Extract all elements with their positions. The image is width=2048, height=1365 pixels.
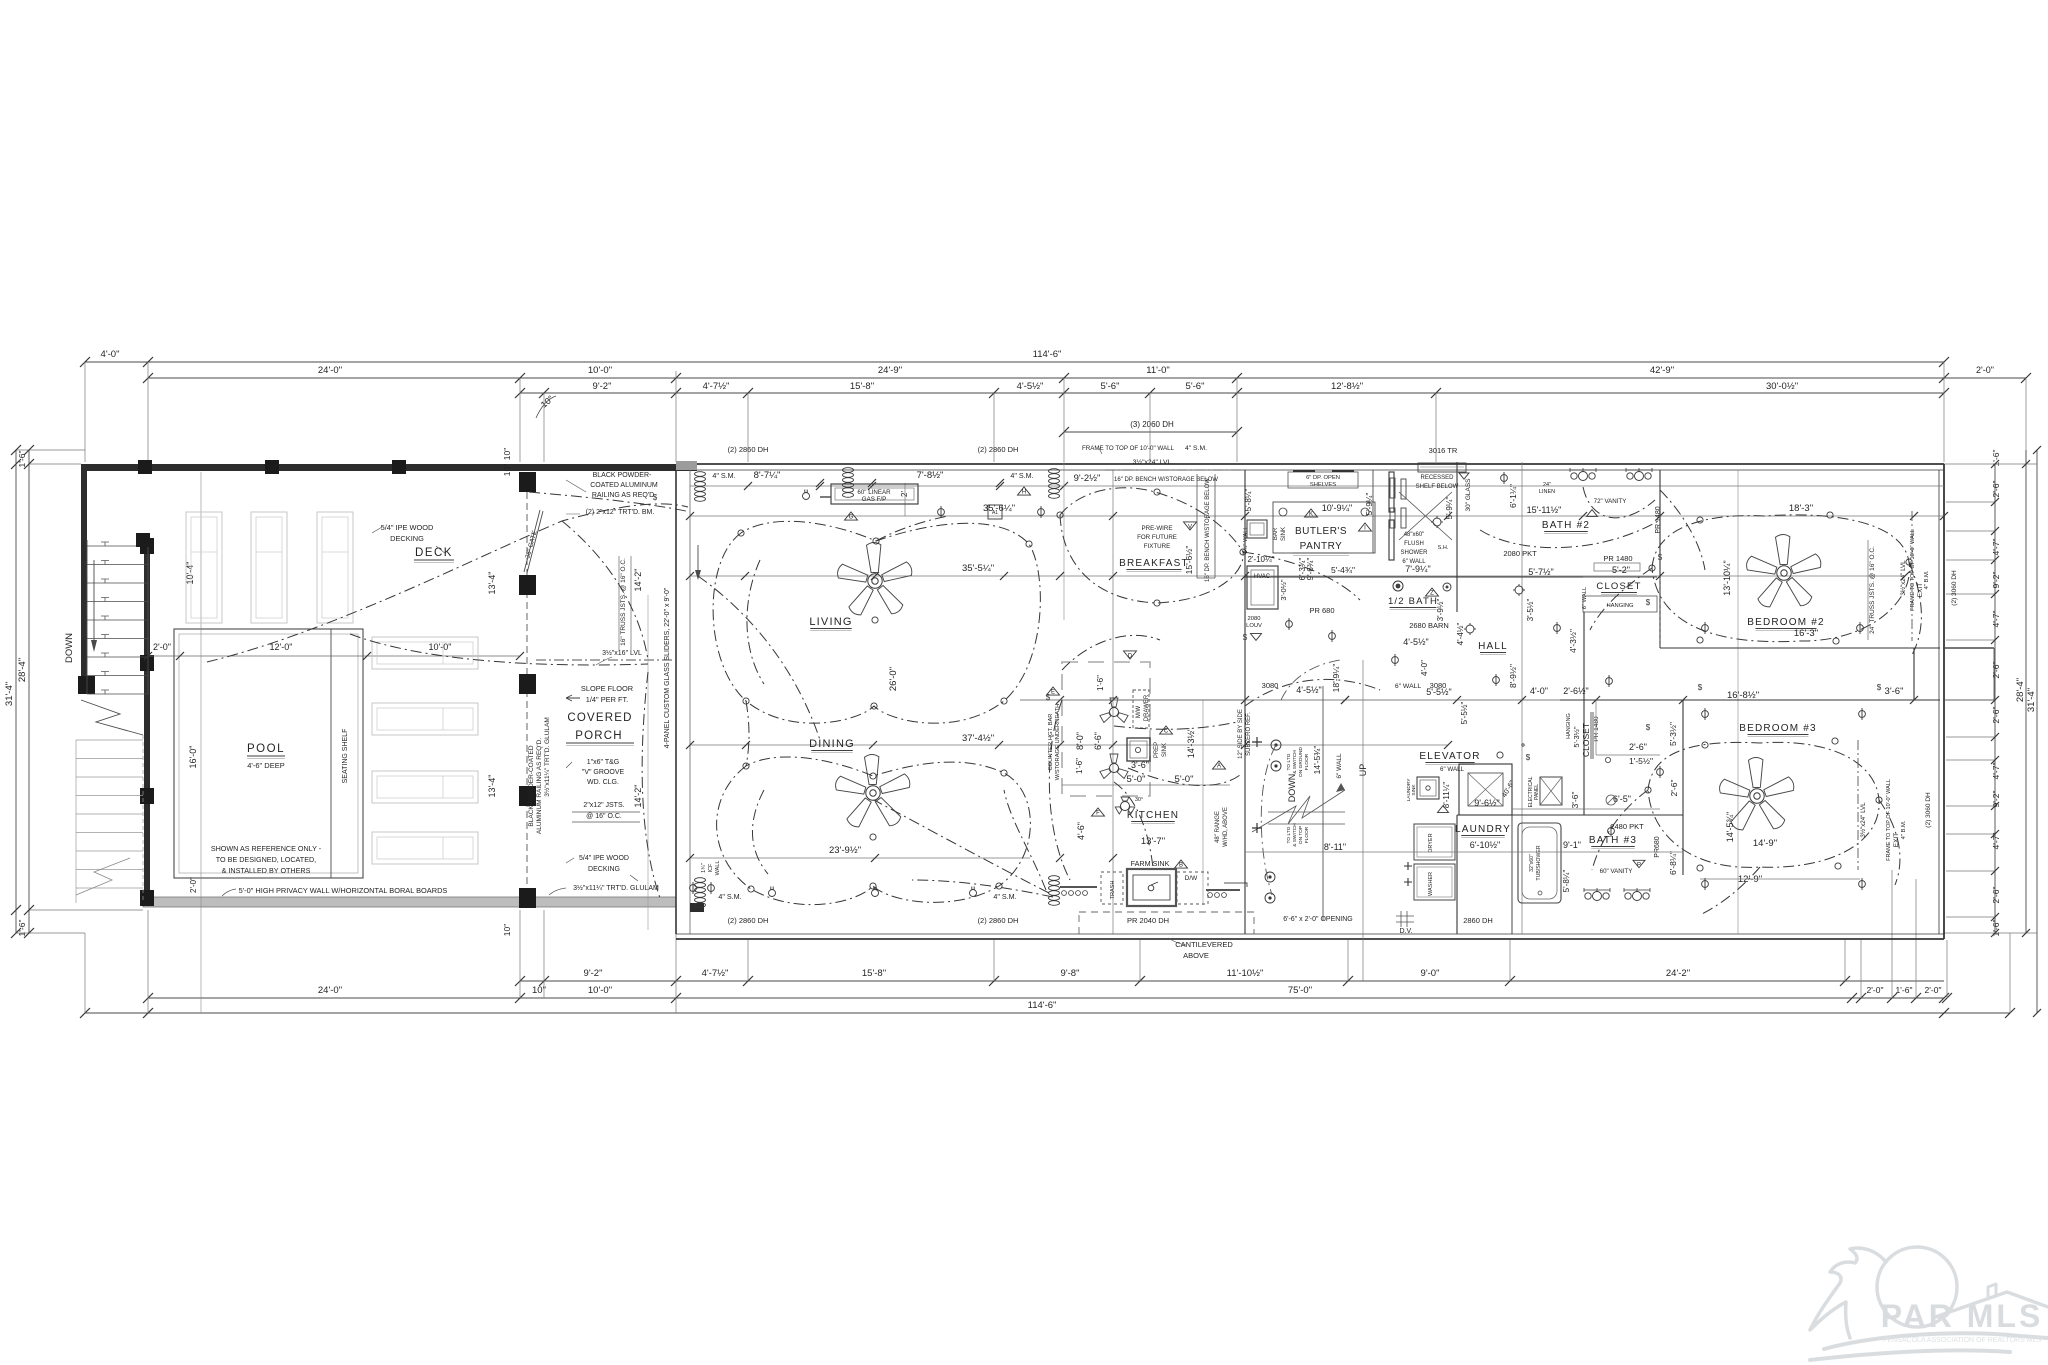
wall bed2 south [1660, 647, 1940, 649]
svg-text:48" RANGE: 48" RANGE [1215, 811, 1221, 843]
svg-text:PR680: PR680 [1654, 836, 1661, 858]
faucet bars [1060, 886, 1097, 888]
GFI bottom [769, 890, 776, 897]
svg-text:DRAWER: DRAWER [1144, 694, 1150, 721]
svg-text:9'-2½": 9'-2½" [1074, 473, 1101, 484]
svg-text:4'-4½": 4'-4½" [1456, 623, 1465, 646]
svg-text:30°: 30° [1135, 797, 1143, 803]
svg-text:6" WALL: 6" WALL [1395, 683, 1422, 690]
svg-text:5/4" IPE WOOD: 5/4" IPE WOOD [381, 523, 434, 532]
svg-text:WALL: WALL [715, 861, 721, 876]
svg-text:24'-2": 24'-2" [1666, 968, 1690, 979]
svg-text:DRYER: DRYER [1428, 833, 1434, 852]
right bump-out nook [1913, 648, 1915, 700]
svg-text:6" WALL: 6" WALL [1402, 559, 1426, 565]
laundry sink [1417, 777, 1439, 799]
svg-text:POOL: POOL [247, 743, 285, 755]
svg-text:5'-2": 5'-2" [1612, 565, 1630, 575]
svg-text:1/4" PER FT.: 1/4" PER FT. [586, 695, 628, 704]
svg-text:PAR MLS: PAR MLS [1881, 1298, 2044, 1334]
wiring arcs living/dining [207, 492, 1053, 905]
svg-text:$: $ [1658, 553, 1663, 562]
svg-text:11'-0": 11'-0" [1146, 365, 1170, 376]
svg-text:9'-2": 9'-2" [593, 381, 612, 392]
svg-text:COUNTER HGT. BAR: COUNTER HGT. BAR [1048, 713, 1054, 770]
svg-text:BAR: BAR [1273, 527, 1279, 540]
svg-text:8'-0": 8'-0" [1075, 732, 1085, 750]
svg-text:15'-11½": 15'-11½" [1527, 505, 1562, 515]
svg-text:RAILING AS REQ'D.: RAILING AS REQ'D. [592, 492, 656, 499]
svg-text:3½"x24" LVL: 3½"x24" LVL [1133, 458, 1172, 466]
fireplace [831, 484, 918, 504]
svg-text:4-PANEL CUSTOM GLASS SLIDERS,: 4-PANEL CUSTOM GLASS SLIDERS, 22'-0" x 9… [664, 587, 671, 748]
svg-text:1'-6": 1'-6" [1075, 758, 1084, 774]
svg-text:$: $ [1877, 683, 1882, 692]
svg-text:2'-6": 2'-6" [1669, 780, 1679, 797]
svg-text:SHELVES: SHELVES [1310, 482, 1336, 488]
svg-text:6'-6": 6'-6" [1093, 732, 1103, 750]
svg-text:"V" GROOVE: "V" GROOVE [582, 769, 625, 776]
svg-text:3'-6": 3'-6" [1131, 760, 1149, 770]
bedroom3 fan [1720, 758, 1794, 830]
svg-text:& INSTALLED BY OTHERS: & INSTALLED BY OTHERS [222, 866, 311, 875]
svg-text:4'-6": 4'-6" [1076, 822, 1086, 840]
svg-text:4'-0": 4'-0" [1530, 686, 1548, 696]
svg-text:37'-4½": 37'-4½" [962, 733, 994, 744]
svg-text:GAS F/P: GAS F/P [862, 496, 886, 503]
arrow on sliders [697, 545, 699, 572]
svg-text:28'-4": 28'-4" [17, 658, 28, 682]
svg-text:14'-5¾": 14'-5¾" [1312, 746, 1322, 775]
svg-text:3'-6": 3'-6" [1885, 686, 1904, 697]
svg-text:6" WALL: 6" WALL [1336, 753, 1343, 779]
svg-text:16" DP. BENCH W/STORAGE BELOW: 16" DP. BENCH W/STORAGE BELOW [1205, 478, 1211, 582]
svg-text:PORCH: PORCH [575, 730, 623, 742]
svg-text:1"x6" T&G: 1"x6" T&G [587, 759, 619, 766]
svg-text:4'-7": 4'-7" [1991, 611, 2001, 628]
pantry counter [1273, 502, 1375, 553]
svg-text:& SWITCH: & SWITCH [1292, 823, 1298, 847]
pantry shelves wall [1372, 470, 1374, 553]
svg-text:W/HD, ABOVE: W/HD, ABOVE [1223, 807, 1229, 847]
dotted bed2/closet wall [1659, 578, 1661, 648]
svg-text:12" SIDE BY SIDE: 12" SIDE BY SIDE [1238, 709, 1244, 759]
svg-text:31'-4": 31'-4" [2026, 688, 2037, 712]
svg-text:RECESSED: RECESSED [1420, 475, 1454, 481]
svg-text:10": 10" [502, 924, 512, 936]
kitchen island dashed gray [1062, 662, 1150, 796]
svg-text:PR 1480: PR 1480 [1655, 506, 1662, 533]
breakfast arcs [1060, 488, 1360, 603]
svg-text:1¾": 1¾" [701, 863, 707, 873]
svg-text:BEDROOM #3: BEDROOM #3 [1739, 723, 1817, 734]
svg-text:35'-5¼": 35'-5¼" [962, 563, 994, 574]
bed2 arcs [1590, 515, 1921, 655]
svg-text:SINK: SINK [1162, 743, 1168, 757]
svg-text:TO LTG: TO LTG [1286, 826, 1292, 843]
svg-text:3½"x24" LVL: 3½"x24" LVL [1860, 802, 1867, 838]
svg-text:HALL: HALL [1478, 641, 1508, 652]
svg-text:3½"x16" LVL: 3½"x16" LVL [602, 649, 642, 657]
svg-text:EXIT: EXIT [1917, 583, 1924, 597]
svg-text:5'-5½": 5'-5½" [1460, 702, 1469, 725]
pool dim line [148, 655, 520, 657]
bottom extension lines [84, 933, 86, 1013]
svg-text:32"x60": 32"x60" [1529, 854, 1535, 872]
living fan [838, 543, 912, 615]
svg-text:23'-9½": 23'-9½" [829, 845, 861, 856]
svg-text:5'-7½": 5'-7½" [1528, 567, 1553, 577]
svg-text:10'-0": 10'-0" [588, 365, 612, 376]
svg-text:4" B.M.: 4" B.M. [1901, 820, 1907, 839]
svg-text:ON TOP: ON TOP [1298, 826, 1304, 844]
svg-text:V: V [1188, 525, 1192, 531]
svg-text:DOWN: DOWN [1287, 774, 1297, 803]
svg-text:16'-0": 16'-0" [188, 746, 198, 769]
phi fixtures right rooms [1702, 625, 1709, 632]
privacy wall gray [143, 897, 676, 907]
svg-text:COVERED: COVERED [567, 712, 632, 724]
svg-text:30" GLASS: 30" GLASS [1465, 478, 1472, 512]
svg-text:2'-0": 2'-0" [1867, 985, 1884, 995]
svg-text:3'-6": 3'-6" [1570, 792, 1580, 809]
svg-text:13'-4": 13'-4" [487, 572, 497, 595]
svg-text:CLOSET: CLOSET [1581, 723, 1591, 757]
triangles kitchen [1047, 687, 1060, 695]
svg-text:PR 2040 DH: PR 2040 DH [1127, 916, 1169, 925]
deck lounge chairs vertical [186, 512, 222, 623]
svg-text:30'-0½": 30'-0½" [1766, 381, 1798, 392]
svg-text:LINEN: LINEN [1539, 489, 1555, 495]
svg-text:1'-6": 1'-6" [1896, 985, 1913, 995]
svg-text:2'-6": 2'-6" [1991, 887, 2001, 904]
switch clusters stairs [1271, 740, 1281, 750]
svg-text:2680 BARN: 2680 BARN [1409, 621, 1449, 630]
top extension lines [84, 362, 86, 462]
LVL line [536, 659, 676, 661]
cantilever dashed [1079, 912, 1254, 934]
bottom dimension tier 1 [520, 980, 1944, 982]
stair walls [1244, 700, 1246, 934]
svg-text:COATED ALUMINUM: COATED ALUMINUM [590, 482, 658, 489]
svg-text:6'-6" x 2'-0" OPENING: 6'-6" x 2'-0" OPENING [1283, 916, 1353, 923]
svg-text:3080: 3080 [1262, 681, 1279, 690]
svg-text:D.V.: D.V. [1400, 928, 1413, 935]
svg-text:BLACK POWDER-: BLACK POWDER- [593, 472, 652, 479]
down arrow [93, 560, 95, 642]
svg-text:5'-4¾": 5'-4¾" [1331, 565, 1355, 575]
svg-text:16" TRUSS JSTS. @ 16" O.C.: 16" TRUSS JSTS. @ 16" O.C. [620, 558, 627, 646]
svg-text:SHELF BELOW: SHELF BELOW [1416, 484, 1459, 490]
svg-text:3'-9½": 3'-9½" [1436, 599, 1445, 622]
svg-text:14'-2": 14'-2" [633, 785, 643, 808]
svg-text:12'-0": 12'-0" [270, 642, 293, 652]
svg-text:4'-7½": 4'-7½" [702, 968, 729, 979]
svg-text:2'-6": 2'-6" [1629, 742, 1647, 752]
top dimension tier 3 [520, 392, 1944, 394]
interior reference lines [690, 485, 1944, 487]
svg-text:3080: 3080 [1430, 681, 1447, 690]
svg-text:24'-0": 24'-0" [318, 365, 342, 376]
svg-text:2'-0": 2'-0" [1925, 985, 1942, 995]
trash / dw [1101, 872, 1123, 904]
svg-text:4" S.M.: 4" S.M. [1010, 471, 1033, 480]
svg-text:DECKING: DECKING [588, 866, 620, 873]
house right wall [1943, 464, 1945, 939]
bedroom2 fan [1747, 535, 1821, 607]
svg-text:75'-0": 75'-0" [1288, 985, 1312, 996]
svg-text:15'-8": 15'-8" [862, 968, 886, 979]
svg-text:$: $ [1046, 693, 1051, 702]
deck top wall thick [81, 464, 697, 471]
svg-text:10'-0": 10'-0" [429, 642, 452, 652]
top wall posts [138, 460, 152, 474]
svg-text:6'-1¼": 6'-1¼" [1508, 484, 1518, 508]
svg-text:BATH #3: BATH #3 [1589, 835, 1637, 846]
left dimensions [15, 450, 17, 933]
svg-text:9'-1": 9'-1" [1563, 840, 1581, 850]
svg-text:5'-6": 5'-6" [1101, 381, 1120, 392]
svg-text:1'-6": 1'-6" [1991, 920, 2001, 937]
svg-text:14'-5¾": 14'-5¾" [1725, 812, 1735, 842]
svg-text:SLOPE FLOOR: SLOPE FLOOR [581, 684, 633, 693]
svg-text:1'-5½": 1'-5½" [1629, 756, 1653, 766]
svg-text:4'-6" DEEP: 4'-6" DEEP [247, 761, 284, 770]
svg-text:9'-8": 9'-8" [1061, 968, 1080, 979]
house bottom wall [676, 933, 1944, 935]
svg-text:PR 680: PR 680 [1309, 606, 1334, 615]
svg-text:PR 1480: PR 1480 [1603, 554, 1632, 563]
svg-text:6'-10½": 6'-10½" [1470, 840, 1500, 850]
svg-text:BUTLER'S: BUTLER'S [1295, 526, 1347, 537]
svg-text:2080: 2080 [1248, 616, 1261, 622]
svg-text:3½"x24" LVL: 3½"x24" LVL [1900, 560, 1907, 596]
svg-text:15'-8": 15'-8" [850, 381, 874, 392]
svg-text:$: $ [1698, 683, 1703, 692]
svg-text:BLACK POWDER-COATED: BLACK POWDER-COATED [528, 745, 535, 826]
svg-text:12'-9": 12'-9" [1738, 874, 1762, 885]
svg-text:PANTRY: PANTRY [1300, 541, 1343, 552]
svg-text:CLOSET: CLOSET [1596, 581, 1641, 592]
fixtures right of fireplace [938, 509, 945, 516]
svg-text:10": 10" [502, 464, 512, 476]
svg-text:3'-0½": 3'-0½" [1279, 579, 1288, 601]
stair break arrow [1268, 811, 1345, 813]
svg-text:(2) 2860 DH: (2) 2860 DH [978, 445, 1019, 454]
svg-text:FARM SINK: FARM SINK [1131, 859, 1170, 868]
svg-text:5/4" IPE WOOD: 5/4" IPE WOOD [579, 855, 629, 862]
top dimension tier 1 (114-6) [148, 361, 1944, 363]
svg-text:6'-8¼": 6'-8¼" [1668, 851, 1678, 875]
svg-text:W/STORAGE UNDERNEATH: W/STORAGE UNDERNEATH [1055, 704, 1061, 781]
svg-text:(2) 2"x12" TRT'D. BM.: (2) 2"x12" TRT'D. BM. [586, 509, 655, 516]
bed3 arcs [1592, 742, 1900, 915]
svg-text:8'-9½": 8'-9½" [1508, 664, 1518, 688]
svg-text:SEATING SHELF: SEATING SHELF [342, 729, 349, 784]
svg-text:2': 2' [900, 491, 909, 497]
kitchen arcs [1049, 635, 1380, 880]
svg-text:WASHER: WASHER [1428, 872, 1434, 896]
svg-text:4'-0": 4'-0" [101, 349, 120, 360]
svg-text:31'-4": 31'-4" [4, 682, 15, 706]
laundry/bath3 walls [1456, 815, 1458, 934]
svg-text:BREAKFAST: BREAKFAST [1119, 558, 1189, 569]
svg-text:7'-9¼": 7'-9¼" [1405, 564, 1430, 574]
svg-text:18'-3": 18'-3" [1789, 503, 1813, 514]
svg-text:5'-0" HIGH PRIVACY WALL W/HORI: 5'-0" HIGH PRIVACY WALL W/HORIZONTAL BOR… [239, 886, 448, 895]
svg-text:4" S.M.: 4" S.M. [993, 892, 1016, 901]
svg-text:4" S.M.: 4" S.M. [1185, 445, 1207, 452]
svg-text:F: F [1096, 811, 1100, 817]
seating shelf [330, 629, 332, 878]
svg-text:1'-6": 1'-6" [1096, 675, 1105, 691]
svg-text:5'-9¼": 5'-9¼" [1445, 497, 1454, 520]
svg-text:5'-0": 5'-0" [1127, 774, 1146, 785]
svg-text:ABOVE: ABOVE [1183, 951, 1209, 960]
svg-text:PREP: PREP [1154, 742, 1160, 758]
svg-text:H: H [1022, 490, 1026, 496]
svg-text:PR 1480: PR 1480 [1593, 716, 1600, 742]
svg-text:2480 PKT: 2480 PKT [1610, 822, 1644, 831]
svg-text:4" S.M.: 4" S.M. [718, 892, 741, 901]
svg-text:WD. CLG.: WD. CLG. [587, 779, 619, 786]
svg-text:4'-7": 4'-7" [1991, 833, 2001, 850]
svg-text:13'-7": 13'-7" [1141, 836, 1165, 847]
svg-text:4'-7": 4'-7" [1991, 763, 2001, 780]
svg-text:2'-0": 2'-0" [153, 642, 171, 652]
PAR MLS watermark [1810, 1247, 2048, 1360]
shower [1389, 472, 1394, 512]
svg-text:B: B [1179, 863, 1183, 869]
svg-text:18'-9¼": 18'-9¼" [1331, 664, 1341, 693]
svg-text:14'-9": 14'-9" [1753, 838, 1777, 849]
svg-text:1/2 BATH: 1/2 BATH [1388, 596, 1438, 607]
bottom dimension tier 2 [148, 997, 1944, 999]
svg-text:(2) 3060 DH: (2) 3060 DH [1951, 570, 1958, 606]
svg-text:HANGING: HANGING [1606, 603, 1634, 609]
svg-text:14'-3½": 14'-3½" [1186, 728, 1196, 758]
svg-text:P: P [1637, 863, 1641, 869]
svg-text:114'-6": 114'-6" [1033, 349, 1062, 360]
svg-text:PENSACOLA ASSOCIATION OF REALT: PENSACOLA ASSOCIATION OF REALTORS MLS [1883, 1337, 2042, 1344]
svg-text:42'-9": 42'-9" [1650, 365, 1674, 376]
svg-text:KITCHEN: KITCHEN [1127, 810, 1179, 821]
wall butlers/bath2 [1244, 470, 1246, 700]
right dimensions [2036, 450, 2038, 1013]
svg-text:4'-7": 4'-7" [1991, 539, 2001, 556]
svg-text:(2) 3060 DH: (2) 3060 DH [1925, 792, 1932, 828]
svg-text:7'-8½": 7'-8½" [917, 470, 944, 481]
left deck wall [81, 464, 87, 694]
svg-text:4" B.M.: 4" B.M. [1924, 570, 1930, 589]
svg-text:LAUNDRY: LAUNDRY [1455, 824, 1511, 835]
slider wall [675, 470, 677, 934]
svg-text:13'-10¼": 13'-10¼" [1722, 560, 1732, 595]
stairwell rails [86, 540, 88, 694]
farm sink [1127, 869, 1176, 906]
wall bed3 north [1560, 699, 1940, 701]
svg-text:(3) 2060 DH: (3) 2060 DH [1130, 420, 1174, 429]
svg-text:10": 10" [502, 448, 512, 460]
svg-text:24'-0": 24'-0" [318, 985, 342, 996]
svg-text:$: $ [1646, 598, 1651, 607]
bath3 tub [1518, 823, 1561, 903]
svg-text:G: G [849, 515, 854, 521]
svg-text:PRE-WIRE: PRE-WIRE [1142, 525, 1173, 532]
svg-text:4'-5½": 4'-5½" [1296, 685, 1321, 695]
svg-text:& SWITCH: & SWITCH [1292, 750, 1298, 774]
svg-text:PANEL: PANEL [1534, 784, 1540, 800]
svg-text:ALUMINUM RAILING AS REQ'D.: ALUMINUM RAILING AS REQ'D. [536, 738, 543, 834]
dining fan [836, 755, 910, 827]
window coils [695, 472, 706, 477]
svg-text:4'-0": 4'-0" [1420, 660, 1429, 676]
svg-text:9'-2": 9'-2" [1991, 572, 2001, 589]
svg-text:8'-7¼": 8'-7¼" [754, 470, 781, 481]
top dimension tier 2 [148, 377, 1944, 379]
svg-text:TO LTG: TO LTG [1286, 753, 1292, 770]
svg-text:72" VANITY: 72" VANITY [1594, 498, 1627, 505]
svg-text:13'-4": 13'-4" [487, 775, 497, 798]
svg-text:1'-6": 1'-6" [17, 920, 27, 937]
svg-text:BATH #2: BATH #2 [1542, 520, 1590, 531]
svg-text:TRASH: TRASH [1110, 881, 1116, 900]
svg-text:10'-0": 10'-0" [588, 985, 612, 996]
svg-text:UP: UP [1358, 764, 1368, 777]
svg-text:TUB/SHOWER: TUB/SHOWER [1536, 845, 1542, 880]
svg-text:FRAME TO TOP OF 10'-0" WALL: FRAME TO TOP OF 10'-0" WALL [1082, 445, 1175, 452]
svg-text:2'-6": 2'-6" [1991, 707, 2001, 724]
svg-text:FIXTURE: FIXTURE [1144, 543, 1170, 550]
svg-text:2080 PKT: 2080 PKT [1503, 549, 1537, 558]
svg-text:ON GROUND: ON GROUND [1298, 747, 1304, 777]
svg-text:2'-6½": 2'-6½" [1563, 686, 1588, 696]
DV [1396, 911, 1414, 927]
svg-text:3½"x11¼" TRT'D. GLULAM: 3½"x11¼" TRT'D. GLULAM [573, 884, 659, 892]
svg-text:2'-0": 2'-0" [189, 877, 198, 893]
top dimension tier 4 [1064, 431, 1237, 433]
svg-text:FLOOR: FLOOR [1304, 753, 1310, 770]
svg-text:26'-0": 26'-0" [888, 667, 899, 691]
svg-text:$: $ [653, 493, 658, 502]
hvac closet [1247, 566, 1278, 609]
svg-text:$: $ [1646, 723, 1651, 732]
svg-text:M/W: M/W [1136, 705, 1142, 718]
svg-text:24" TRUSS JSTS. @ 16" O.C.: 24" TRUSS JSTS. @ 16" O.C. [1869, 546, 1876, 634]
svg-text:$: $ [1526, 753, 1531, 762]
svg-text:6" DP. OPEN: 6" DP. OPEN [1306, 475, 1340, 481]
svg-text:FRAME TO TOP OF 10'-0" WALL: FRAME TO TOP OF 10'-0" WALL [1910, 529, 1916, 611]
stair treads lower [76, 739, 143, 741]
gate gray segment [676, 461, 697, 470]
svg-text:5'-3½": 5'-3½" [1572, 726, 1581, 748]
svg-text:EXIT: EXIT [1893, 833, 1900, 847]
svg-text:2860 DH: 2860 DH [1463, 916, 1493, 925]
svg-text:9'-6½": 9'-6½" [1474, 798, 1499, 808]
bar sink [1247, 520, 1267, 538]
svg-text:14'-2": 14'-2" [633, 569, 643, 592]
svg-text:(2) 2860 DH: (2) 2860 DH [978, 916, 1019, 925]
svg-text:8'-11": 8'-11" [1324, 842, 1346, 852]
svg-text:SHOWER: SHOWER [1401, 550, 1429, 556]
svg-text:4" S.M.: 4" S.M. [712, 471, 735, 480]
svg-text:TO BE DESIGNED, LOCATED,: TO BE DESIGNED, LOCATED, [216, 855, 316, 864]
svg-text:24'-9": 24'-9" [878, 365, 902, 376]
electrical panel [1540, 777, 1562, 805]
svg-text:10'-9¼": 10'-9¼" [1322, 503, 1352, 513]
svg-text:K: K [1309, 512, 1313, 518]
svg-text:12'-8½": 12'-8½" [1331, 381, 1363, 392]
